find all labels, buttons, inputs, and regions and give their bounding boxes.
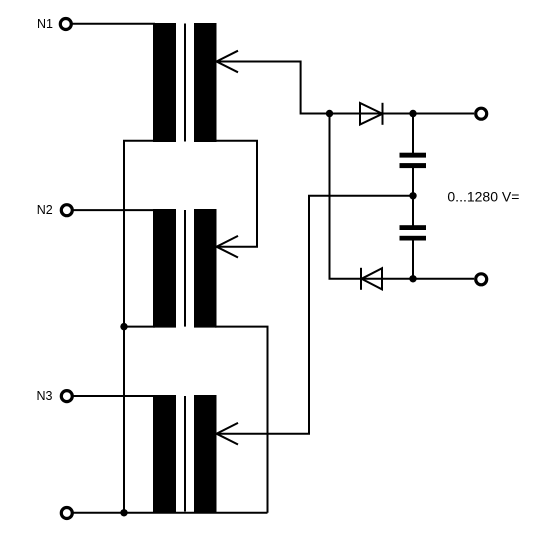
svg-text:N2: N2 (37, 203, 53, 217)
svg-text:0...1280 V=: 0...1280 V= (447, 189, 519, 205)
svg-text:N1: N1 (37, 17, 53, 31)
svg-text:N3: N3 (37, 389, 53, 403)
